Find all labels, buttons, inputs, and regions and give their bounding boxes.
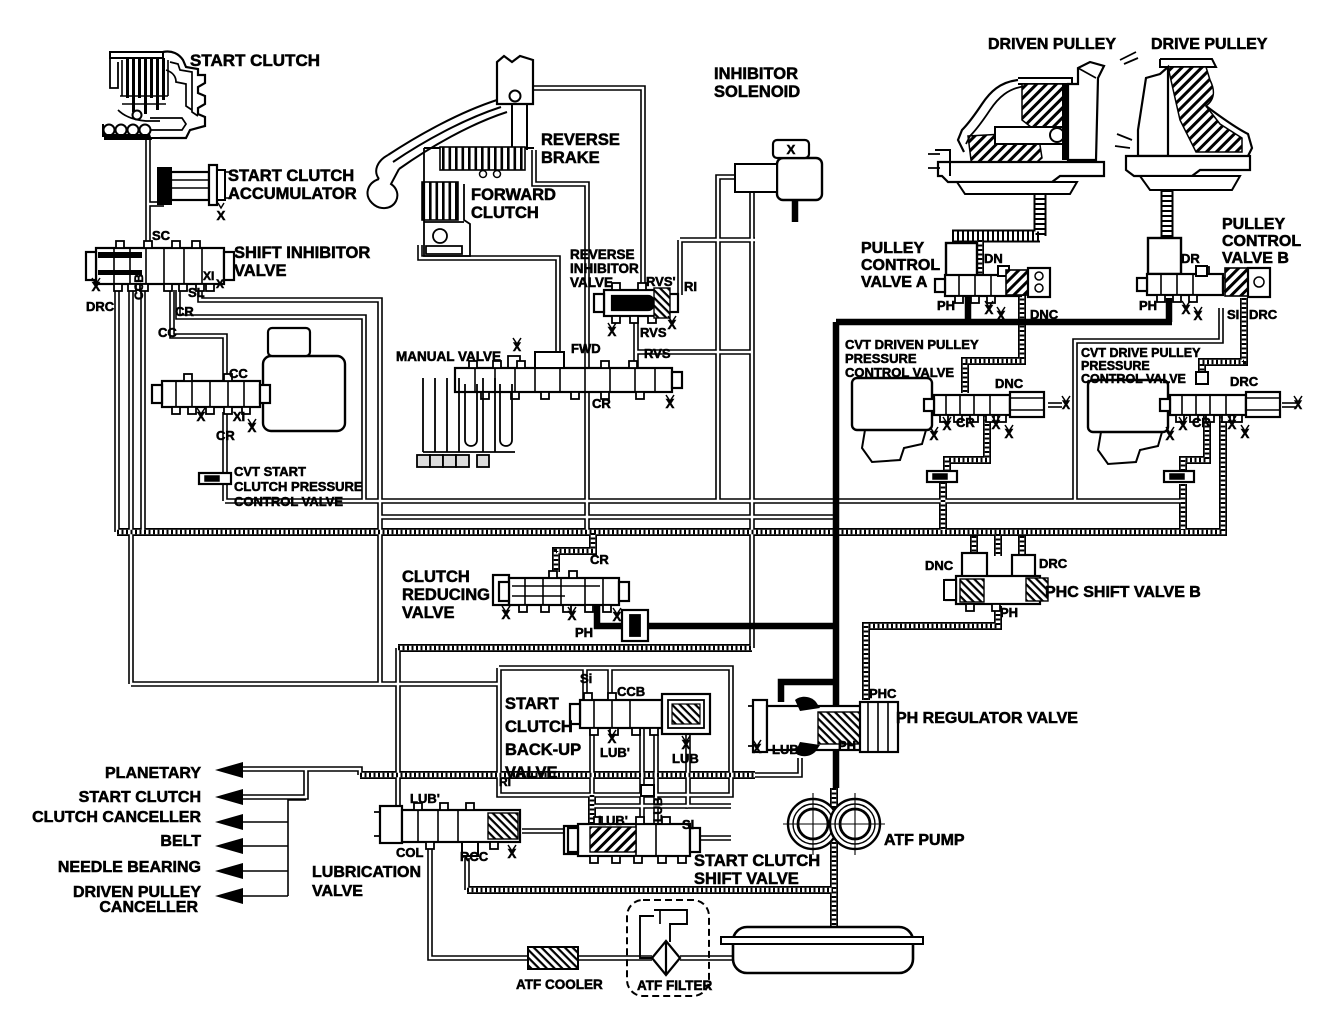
svg-text:DRIVE PULLEY: DRIVE PULLEY bbox=[1151, 36, 1268, 53]
svg-text:FORWARD: FORWARD bbox=[471, 186, 556, 204]
svg-text:INHIBITOR: INHIBITOR bbox=[570, 261, 639, 276]
svg-text:ATF FILTER: ATF FILTER bbox=[637, 978, 712, 993]
svg-text:X: X bbox=[1194, 308, 1203, 323]
svg-text:INHIBITOR: INHIBITOR bbox=[714, 65, 798, 83]
svg-text:DRC: DRC bbox=[1230, 374, 1259, 389]
svg-text:X: X bbox=[985, 302, 994, 317]
svg-text:VALVE B: VALVE B bbox=[1222, 250, 1289, 267]
svg-text:X: X bbox=[943, 418, 952, 433]
svg-text:DRC: DRC bbox=[1249, 307, 1278, 322]
svg-text:CONTROL VALVE: CONTROL VALVE bbox=[1081, 372, 1186, 386]
svg-text:CLUTCH: CLUTCH bbox=[505, 718, 573, 736]
svg-text:START CLUTCH: START CLUTCH bbox=[694, 852, 820, 870]
svg-text:PH: PH bbox=[575, 625, 593, 640]
svg-text:CVT DRIVEN PULLEY: CVT DRIVEN PULLEY bbox=[845, 337, 979, 352]
svg-text:CVT DRIVE PULLEY: CVT DRIVE PULLEY bbox=[1081, 346, 1201, 360]
svg-text:START CLUTCH: START CLUTCH bbox=[79, 789, 201, 806]
svg-text:DRC: DRC bbox=[86, 299, 115, 314]
svg-text:PLANETARY: PLANETARY bbox=[105, 765, 201, 782]
svg-text:REVERSE: REVERSE bbox=[570, 247, 635, 262]
svg-text:SHIFT INHIBITOR: SHIFT INHIBITOR bbox=[234, 244, 370, 262]
svg-text:LUB: LUB bbox=[772, 742, 799, 757]
svg-text:PULLEY: PULLEY bbox=[861, 240, 924, 257]
svg-text:X: X bbox=[930, 428, 939, 443]
svg-text:START CLUTCH: START CLUTCH bbox=[228, 167, 354, 185]
svg-text:X: X bbox=[1179, 418, 1188, 433]
svg-text:DR: DR bbox=[1181, 251, 1200, 266]
svg-text:CLUTCH: CLUTCH bbox=[471, 204, 539, 222]
svg-text:REDUCING: REDUCING bbox=[402, 586, 490, 604]
svg-text:X: X bbox=[1228, 417, 1237, 432]
svg-text:X: X bbox=[1166, 428, 1175, 443]
svg-text:PHC SHIFT VALVE B: PHC SHIFT VALVE B bbox=[1045, 584, 1201, 601]
svg-text:SOLENOID: SOLENOID bbox=[714, 83, 800, 101]
svg-text:LUB: LUB bbox=[672, 751, 699, 766]
svg-text:RCC: RCC bbox=[460, 849, 489, 864]
svg-text:X: X bbox=[1062, 398, 1070, 412]
svg-text:VALVE: VALVE bbox=[234, 262, 287, 280]
svg-text:CONTROL: CONTROL bbox=[1222, 233, 1301, 250]
svg-text:CANCELLER: CANCELLER bbox=[99, 899, 198, 916]
svg-text:CCB: CCB bbox=[132, 274, 146, 300]
svg-text:CCB: CCB bbox=[617, 684, 645, 699]
svg-text:PH: PH bbox=[1139, 298, 1157, 313]
svg-text:CONTROL VALVE: CONTROL VALVE bbox=[234, 494, 343, 509]
svg-text:CR: CR bbox=[1192, 415, 1211, 430]
svg-text:VALVE: VALVE bbox=[312, 883, 363, 900]
svg-text:LUB: LUB bbox=[651, 797, 665, 822]
svg-text:CR: CR bbox=[175, 304, 194, 319]
svg-text:BACK-UP: BACK-UP bbox=[505, 741, 581, 759]
svg-text:ACCUMULATOR: ACCUMULATOR bbox=[228, 185, 357, 203]
svg-text:DN: DN bbox=[984, 251, 1003, 266]
svg-text:X: X bbox=[787, 142, 796, 157]
svg-text:X: X bbox=[608, 731, 617, 746]
svg-text:START: START bbox=[505, 695, 559, 713]
svg-text:Si: Si bbox=[580, 671, 592, 686]
svg-text:CONTROL: CONTROL bbox=[861, 257, 940, 274]
svg-text:LUB': LUB' bbox=[598, 813, 628, 828]
svg-text:ATF COOLER: ATF COOLER bbox=[516, 977, 603, 992]
svg-text:REVERSE: REVERSE bbox=[541, 131, 620, 149]
svg-text:RVS: RVS bbox=[640, 325, 667, 340]
svg-text:VALVE: VALVE bbox=[402, 604, 455, 622]
svg-text:PULLEY: PULLEY bbox=[1222, 216, 1285, 233]
svg-text:SI: SI bbox=[682, 817, 694, 832]
svg-text:CR: CR bbox=[590, 552, 609, 567]
svg-text:X: X bbox=[216, 277, 224, 291]
svg-text:NEEDLE BEARING: NEEDLE BEARING bbox=[58, 859, 201, 876]
svg-text:X: X bbox=[992, 417, 1001, 432]
svg-text:COL: COL bbox=[396, 845, 424, 860]
svg-text:X: X bbox=[608, 324, 617, 339]
svg-text:DRIVEN PULLEY: DRIVEN PULLEY bbox=[988, 36, 1116, 53]
svg-text:LUB': LUB' bbox=[410, 791, 440, 806]
svg-text:X: X bbox=[682, 737, 691, 752]
svg-text:X: X bbox=[513, 340, 521, 354]
svg-text:LUB': LUB' bbox=[600, 745, 630, 760]
svg-text:X: X bbox=[197, 409, 206, 424]
svg-text:X: X bbox=[217, 208, 226, 223]
svg-text:CLUTCH PRESSURE: CLUTCH PRESSURE bbox=[234, 479, 363, 494]
svg-text:XI: XI bbox=[233, 409, 245, 424]
svg-text:ATF PUMP: ATF PUMP bbox=[884, 832, 965, 849]
svg-text:SL: SL bbox=[188, 285, 205, 300]
svg-text:X: X bbox=[92, 279, 101, 294]
svg-text:PH REGULATOR VALVE: PH REGULATOR VALVE bbox=[896, 710, 1078, 727]
svg-text:CR: CR bbox=[592, 396, 611, 411]
svg-text:LUBRICATION: LUBRICATION bbox=[312, 864, 421, 881]
svg-text:X: X bbox=[613, 609, 622, 624]
svg-text:DNC: DNC bbox=[925, 558, 954, 573]
svg-text:FWD: FWD bbox=[571, 341, 601, 356]
svg-text:PRESSURE: PRESSURE bbox=[1081, 359, 1150, 373]
svg-text:X: X bbox=[1005, 426, 1014, 441]
svg-text:CLUTCH CANCELLER: CLUTCH CANCELLER bbox=[32, 809, 201, 826]
svg-text:MANUAL VALVE: MANUAL VALVE bbox=[396, 349, 501, 364]
svg-text:BELT: BELT bbox=[160, 833, 201, 850]
svg-text:VALVE: VALVE bbox=[505, 764, 558, 782]
svg-text:DNC: DNC bbox=[1030, 307, 1059, 322]
svg-text:X: X bbox=[1294, 398, 1302, 412]
svg-text:PHC: PHC bbox=[869, 686, 897, 701]
svg-text:X: X bbox=[1182, 302, 1191, 317]
svg-text:X: X bbox=[997, 308, 1006, 323]
svg-text:X: X bbox=[508, 846, 517, 861]
svg-text:VALVE: VALVE bbox=[570, 275, 613, 290]
svg-text:DNC: DNC bbox=[995, 376, 1024, 391]
svg-text:SHIFT VALVE: SHIFT VALVE bbox=[694, 870, 799, 888]
svg-text:CC: CC bbox=[229, 366, 248, 381]
svg-text:RI: RI bbox=[499, 775, 511, 789]
svg-text:PH: PH bbox=[1000, 605, 1018, 620]
svg-text:RVS': RVS' bbox=[646, 274, 676, 289]
svg-text:RVS: RVS bbox=[644, 346, 671, 361]
svg-text:START CLUTCH: START CLUTCH bbox=[190, 51, 320, 70]
svg-text:SC: SC bbox=[152, 228, 171, 243]
svg-text:CC: CC bbox=[158, 325, 177, 340]
svg-text:X: X bbox=[753, 741, 762, 756]
svg-text:BRAKE: BRAKE bbox=[541, 149, 600, 167]
svg-text:CR: CR bbox=[956, 415, 975, 430]
svg-text:CVT START: CVT START bbox=[234, 464, 306, 479]
svg-text:SI: SI bbox=[1227, 307, 1239, 322]
svg-text:PH: PH bbox=[838, 738, 856, 753]
svg-text:CLUTCH: CLUTCH bbox=[402, 568, 470, 586]
svg-text:CONTROL VALVE: CONTROL VALVE bbox=[845, 365, 954, 380]
svg-text:VALVE A: VALVE A bbox=[861, 274, 928, 291]
svg-text:RI: RI bbox=[684, 279, 697, 294]
svg-text:X: X bbox=[248, 420, 257, 435]
svg-text:X: X bbox=[502, 607, 511, 622]
svg-text:X: X bbox=[1241, 426, 1250, 441]
svg-text:PRESSURE: PRESSURE bbox=[845, 351, 917, 366]
svg-text:X: X bbox=[666, 396, 675, 411]
svg-text:DRC: DRC bbox=[1039, 556, 1068, 571]
svg-text:PH: PH bbox=[937, 298, 955, 313]
svg-text:X: X bbox=[668, 317, 677, 332]
svg-text:CR: CR bbox=[216, 428, 235, 443]
svg-text:XI: XI bbox=[203, 269, 214, 283]
svg-text:X: X bbox=[568, 608, 577, 623]
